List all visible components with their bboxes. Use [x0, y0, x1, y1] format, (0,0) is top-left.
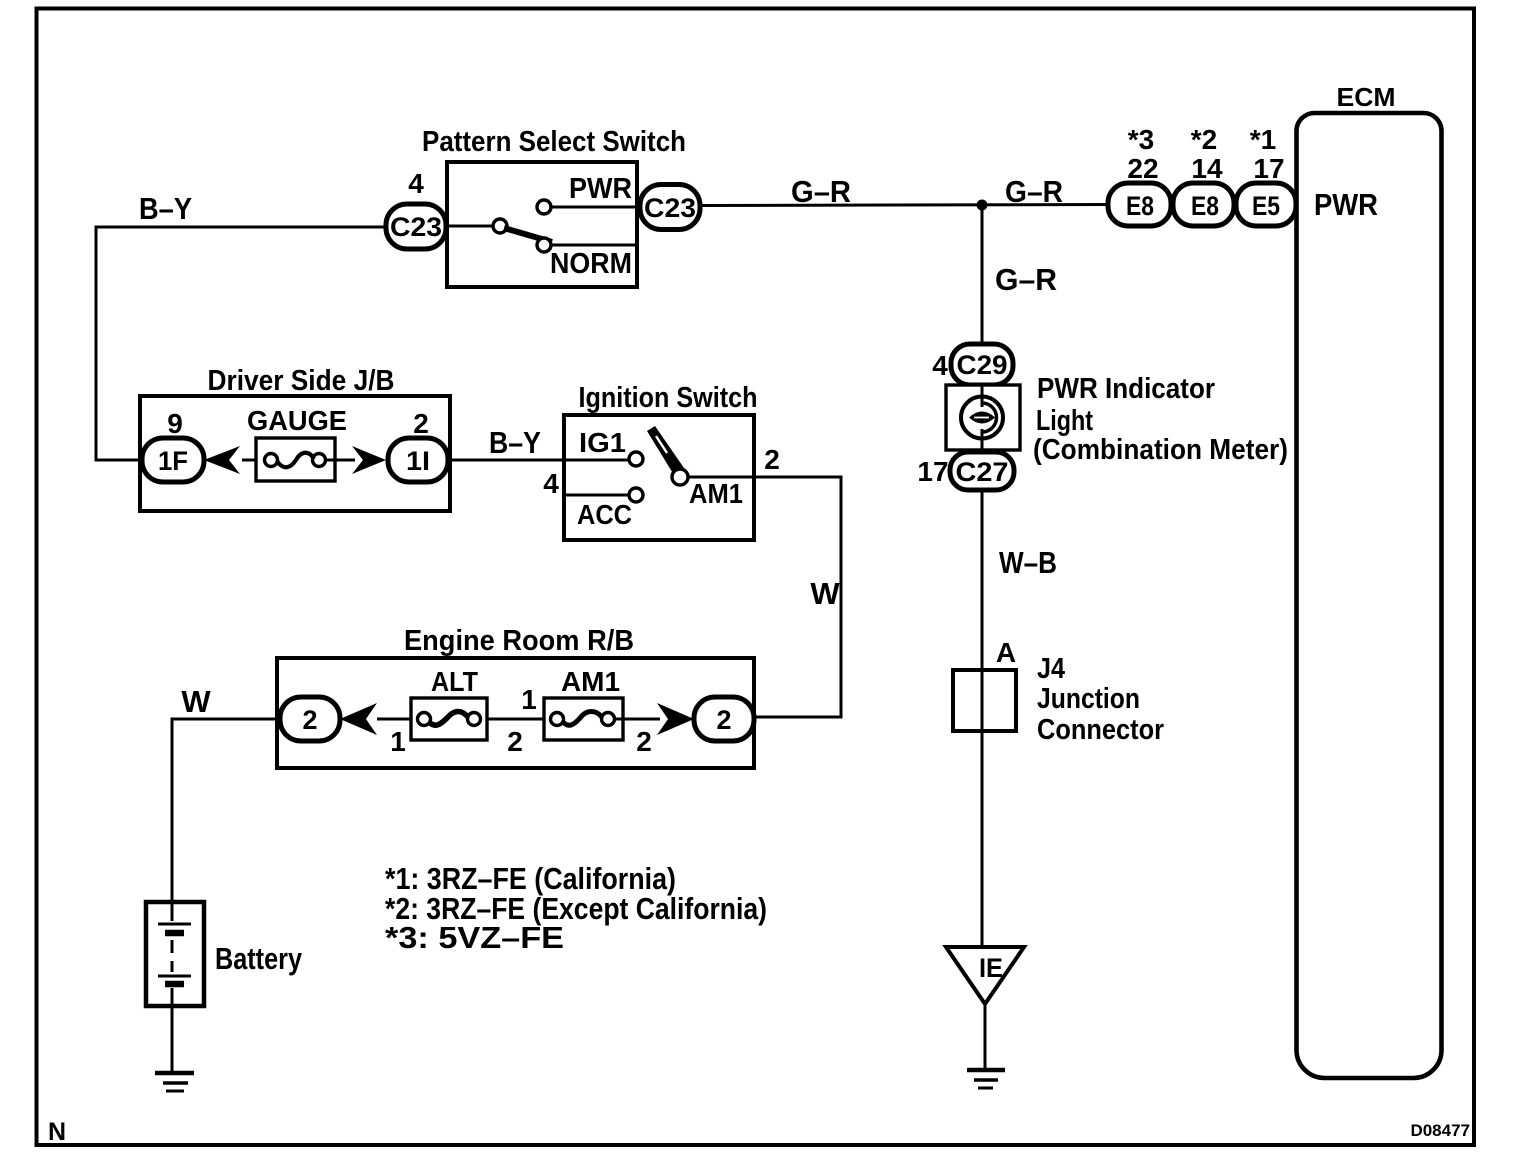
fuse AM1 [544, 698, 623, 740]
wire AM1 to engine room R/B [688, 477, 841, 717]
svg-text:*1: *1 [1250, 124, 1276, 155]
svg-text:1: 1 [521, 684, 537, 715]
svg-text:PWR Indicator: PWR Indicator [1037, 373, 1215, 405]
svg-text:ECM: ECM [1337, 82, 1396, 112]
svg-text:1I: 1I [406, 446, 430, 476]
svg-text:W: W [810, 576, 840, 611]
wire fuse to arrow [325, 459, 355, 462]
Engine Room R/B box [277, 658, 754, 768]
wire G-R junction to combination meter [981, 205, 984, 346]
label PWR Indicator Light (Combination Meter) [1033, 373, 1288, 466]
svg-text:Ignition Switch: Ignition Switch [579, 382, 758, 414]
svg-text:2: 2 [413, 408, 429, 439]
svg-text:PWR: PWR [569, 173, 632, 205]
connector 2 (engine room right) [694, 697, 754, 741]
svg-text:NORM: NORM [550, 248, 632, 280]
connector C29 pin 4 [951, 344, 1013, 385]
svg-text:2: 2 [507, 726, 523, 757]
svg-text:ALT: ALT [431, 666, 478, 697]
ground symbol (battery) [155, 1073, 194, 1091]
arrow left (driver side J/B) [204, 446, 240, 474]
contact ACC [629, 488, 643, 502]
wire AM1 fuse to arrow [614, 718, 660, 721]
Pattern Select Switch box [447, 162, 637, 287]
svg-text:4: 4 [932, 350, 948, 381]
svg-text:N: N [48, 1118, 66, 1146]
note *1 *2 *3 engine applicability [385, 861, 767, 955]
svg-text:E5: E5 [1252, 191, 1280, 221]
svg-text:PWR: PWR [1314, 187, 1378, 222]
svg-text:Connector: Connector [1037, 714, 1164, 746]
ECM box [1297, 113, 1442, 1078]
svg-text:*3: *3 [1128, 124, 1154, 155]
connector C27 pin 17 [950, 452, 1014, 490]
connector 1F pin 9 [142, 438, 204, 482]
wire arrow to fuse ALT [377, 718, 420, 721]
Ignition Switch box [564, 415, 754, 540]
svg-text:Pattern Select Switch: Pattern Select Switch [422, 126, 686, 158]
svg-text:17: 17 [917, 456, 948, 487]
svg-text:AM1: AM1 [561, 666, 620, 697]
connector C23 pin 4 (left) [386, 204, 446, 249]
svg-text:*2: *2 [1191, 124, 1217, 155]
battery [146, 902, 204, 1071]
connector E8 pin 22 [1108, 183, 1171, 226]
wire G-R from pattern select switch to ECM [700, 205, 1110, 206]
ignition switch lever [647, 426, 684, 475]
svg-text:Junction: Junction [1037, 683, 1140, 715]
svg-text:Light: Light [1036, 405, 1093, 437]
arrow right (engine room R/B) [657, 703, 694, 735]
svg-text:B–Y: B–Y [489, 425, 541, 460]
svg-text:E8: E8 [1126, 191, 1154, 221]
connector E8 pin 14 [1173, 183, 1234, 226]
wire arrow to fuse [242, 459, 266, 462]
contact AM1 (pivot) [672, 469, 688, 485]
svg-text:1: 1 [390, 726, 406, 757]
fuse ALT [411, 698, 487, 740]
svg-text:4: 4 [543, 468, 559, 499]
contact IG1 [629, 452, 643, 466]
PWR indicator light bulb (combination meter) [946, 385, 1020, 450]
svg-text:22: 22 [1127, 153, 1158, 184]
wire PWR contact to connector [551, 206, 640, 209]
svg-text:Battery: Battery [215, 941, 303, 976]
wire ACC stub [564, 494, 629, 497]
svg-text:1F: 1F [158, 446, 188, 476]
svg-text:Engine Room R/B: Engine Room R/B [404, 625, 634, 657]
wire ALT to AM1 fuse [487, 718, 553, 721]
connector 2 (engine room left) [280, 697, 340, 741]
svg-text:C27: C27 [956, 457, 1009, 487]
wire B-Y from driver side J/B to ignition switch [448, 459, 629, 462]
switch contact PWR [537, 200, 551, 214]
svg-text:17: 17 [1253, 153, 1284, 184]
svg-text:ACC: ACC [577, 499, 632, 530]
svg-text:2: 2 [636, 726, 652, 757]
wire switch common lead [446, 225, 493, 228]
svg-text:B–Y: B–Y [139, 191, 192, 226]
arrow right (driver side J/B) [352, 446, 386, 474]
junction connector J4 box [953, 670, 1016, 731]
svg-text:W: W [181, 684, 211, 719]
switch common contact [493, 219, 507, 233]
svg-text:GAUGE: GAUGE [247, 405, 347, 436]
connector C23 (right) [640, 185, 700, 230]
svg-text:IE: IE [979, 953, 1003, 983]
svg-text:14: 14 [1191, 153, 1223, 184]
ground point IE (triangle) [946, 947, 1024, 1004]
label J4 Junction Connector [1037, 653, 1164, 746]
svg-text:*3: 5VZ–FE: *3: 5VZ–FE [385, 920, 564, 955]
junction node [977, 200, 988, 211]
connector E5 pin 17 [1236, 183, 1296, 226]
svg-text:G–R: G–R [1005, 174, 1063, 209]
svg-text:2: 2 [302, 705, 317, 735]
svg-text:E8: E8 [1191, 191, 1219, 221]
svg-text:C23: C23 [390, 212, 442, 242]
wire NORM contact lead [551, 244, 637, 247]
switch lever (pattern select) [504, 228, 552, 242]
svg-text:C29: C29 [957, 350, 1008, 380]
svg-text:Driver Side J/B: Driver Side J/B [208, 365, 395, 397]
svg-text:D08477: D08477 [1410, 1121, 1470, 1140]
fuse GAUGE [256, 438, 335, 481]
switch contact NORM [537, 238, 551, 252]
ground symbol (IE) [967, 1070, 1005, 1088]
wire W from battery to engine room R/B [172, 719, 280, 902]
svg-text:AM1: AM1 [689, 478, 743, 509]
svg-text:(Combination Meter): (Combination Meter) [1033, 434, 1288, 466]
svg-text:G–R: G–R [995, 262, 1057, 297]
Driver Side J/B box [140, 396, 450, 511]
svg-text:9: 9 [167, 408, 183, 439]
svg-text:2: 2 [716, 705, 731, 735]
svg-text:J4: J4 [1037, 653, 1065, 685]
svg-text:2: 2 [764, 444, 780, 475]
arrow left (engine room R/B) [340, 703, 377, 735]
svg-text:4: 4 [408, 168, 424, 199]
wire W-B from combination meter to IE ground [981, 490, 984, 947]
svg-text:G–R: G–R [791, 174, 851, 209]
wire IE triangle to ground [984, 1004, 987, 1070]
svg-text:W–B: W–B [999, 545, 1057, 580]
svg-text:IG1: IG1 [579, 427, 626, 458]
svg-text:C23: C23 [644, 193, 696, 223]
connector 1I pin 2 [388, 438, 448, 482]
svg-text:A: A [996, 637, 1016, 668]
wire B-Y from pattern select switch to driver side J/B [96, 227, 388, 460]
